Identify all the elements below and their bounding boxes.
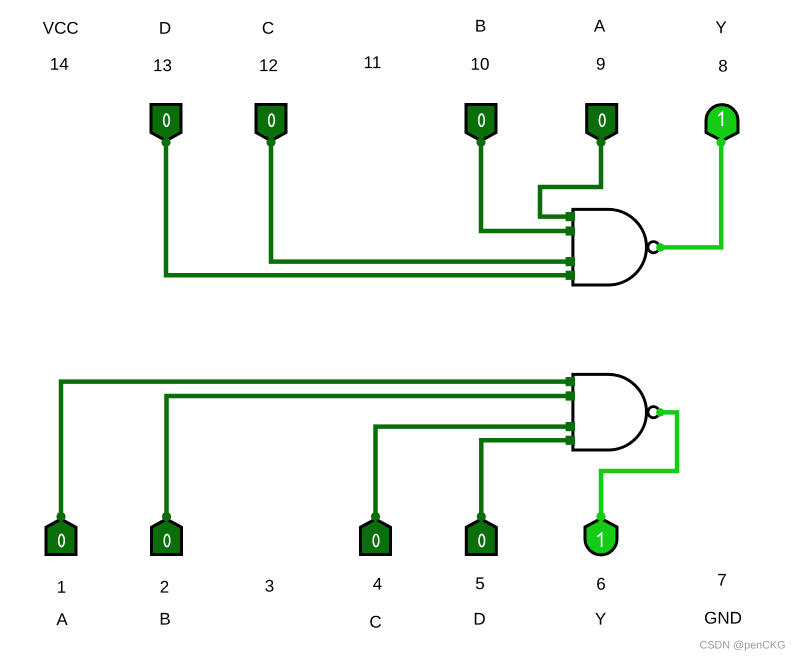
node dot pin9 (596, 138, 605, 147)
input pin 4 (C) value 0 (361, 519, 391, 555)
svg-text:3: 3 (265, 577, 274, 596)
gate2 inversion bubble (648, 407, 659, 418)
gate1 input stub 2 (566, 226, 575, 235)
NAND gate U1B (bottom) (566, 374, 665, 450)
svg-text:Y: Y (595, 610, 606, 629)
gate1 body (573, 209, 647, 285)
node dot pin12 (266, 138, 275, 147)
svg-text:12: 12 (259, 56, 278, 75)
wire pin10 B to gate1 input2 (481, 144, 566, 231)
svg-text:C: C (262, 19, 274, 38)
node dot pin6 (596, 512, 605, 521)
svg-text:14: 14 (50, 55, 69, 74)
input pin 1 (A) value 0 (46, 519, 76, 555)
svg-text:B: B (475, 17, 486, 36)
input pin 12 (C) value 0 (256, 105, 286, 141)
svg-text:5: 5 (475, 574, 484, 593)
node dot pin13 (161, 138, 170, 147)
gate2 input stub 3 (566, 422, 575, 431)
wire pin2 B to gate2 input2 (167, 396, 567, 514)
svg-text:D: D (159, 19, 171, 38)
output pin 6 (Y) value 1 (585, 519, 617, 555)
gate2 input stub 4 (566, 436, 575, 445)
input pin 10 (B) value 0 (466, 105, 496, 141)
svg-text:4: 4 (373, 575, 382, 594)
svg-text:10: 10 (471, 55, 490, 74)
svg-text:CSDN @penCKG: CSDN @penCKG (700, 639, 786, 651)
svg-text:9: 9 (596, 55, 605, 74)
node dot pin4 (371, 512, 380, 521)
wire gate2 output to pin6 Y (601, 412, 677, 517)
svg-text:D: D (473, 610, 485, 629)
wire gate1 output to pin8 Y (660, 142, 721, 247)
gate1 input stub 3 (566, 257, 575, 266)
wire pin9 A to gate1 input1 (540, 144, 601, 217)
output pin 8 (Y) value 1 (706, 105, 738, 141)
svg-text:8: 8 (718, 57, 727, 76)
svg-text:7: 7 (717, 571, 726, 590)
svg-text:C: C (369, 613, 381, 632)
node dot pin5 (477, 512, 486, 521)
svg-text:Y: Y (715, 18, 726, 37)
gate2 output dot (656, 408, 664, 416)
svg-text:A: A (56, 610, 68, 629)
gate2 body (573, 374, 647, 450)
wire pin5 D to gate2 input4 (481, 440, 566, 514)
wire pin13 D to gate1 input4 (166, 144, 566, 275)
gate2 input stub 1 (566, 377, 575, 386)
svg-text:A: A (594, 17, 606, 36)
wire pin1 A to gate2 input1 (61, 382, 566, 514)
node dot pin10 (476, 138, 485, 147)
gate1 input stub 4 (566, 271, 575, 280)
input pin 2 (B) value 0 (152, 519, 182, 555)
gate1 inversion bubble (648, 242, 659, 253)
input pin 5 (D) value 0 (466, 519, 496, 555)
wire pin12 C to gate1 input3 (271, 144, 566, 262)
gate1 input stub 1 (566, 212, 575, 221)
gate1 output dot (656, 243, 664, 251)
svg-text:VCC: VCC (43, 19, 79, 38)
svg-text:B: B (159, 610, 170, 629)
input pin 13 (D) value 0 (151, 105, 181, 141)
NAND gate U1A (top) (566, 209, 665, 285)
svg-text:11: 11 (364, 53, 382, 72)
svg-text:2: 2 (160, 578, 169, 597)
node dot pin8 (716, 138, 725, 147)
svg-text:6: 6 (596, 575, 605, 594)
node dot pin1 (56, 512, 65, 521)
input pin 9 (A) value 0 (587, 105, 617, 141)
gate2 input stub 2 (566, 391, 575, 400)
svg-text:13: 13 (153, 56, 172, 75)
node dot pin2 (162, 512, 171, 521)
svg-text:GND: GND (704, 609, 742, 628)
wire pin4 C to gate2 input3 (376, 427, 567, 514)
svg-text:1: 1 (57, 578, 66, 597)
